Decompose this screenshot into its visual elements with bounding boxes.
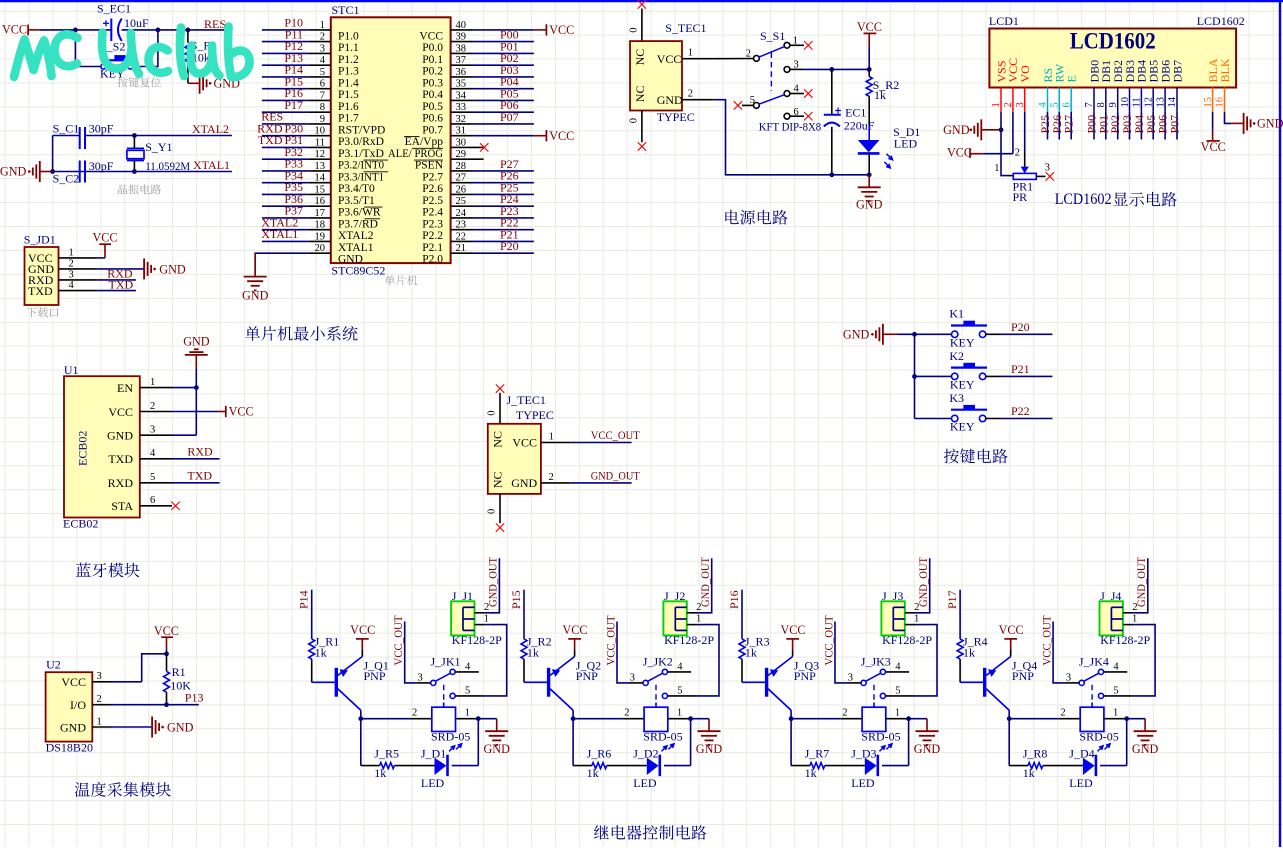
- wire S_EC1 to RES node: [122, 29, 158, 31]
- svg-text:1k: 1k: [1023, 766, 1035, 780]
- no-connect X on S_S1 pin6: [790, 112, 813, 120]
- svg-text:NC: NC: [491, 471, 505, 488]
- wire from pin 25 of STC1: [473, 205, 534, 207]
- svg-text:KF128-2P: KF128-2P: [1100, 633, 1150, 647]
- wire U2 VCC leg: [111, 681, 142, 683]
- resistor R1 10K: [164, 654, 192, 705]
- svg-text:P2.1: P2.1: [422, 242, 443, 254]
- pin 11 DB4 of LCD1: [1132, 60, 1149, 112]
- svg-text:12: 12: [315, 149, 326, 160]
- wire from pin 26 of STC1: [473, 193, 534, 195]
- pin 32 P0.7 of STC1: [422, 114, 472, 136]
- svg-text:VCC_OUT: VCC_OUT: [591, 428, 641, 442]
- connector S_JD1: [24, 233, 59, 305]
- resistor J_R1 1k: [309, 634, 340, 682]
- svg-text:4: 4: [1113, 662, 1119, 673]
- wire U2 I/O to P13: [111, 704, 199, 706]
- transistor J_Q2 PNP: [524, 657, 601, 711]
- wire collector to bus: [1008, 710, 1010, 718]
- svg-text:P3.6/WR: P3.6/WR: [338, 207, 381, 219]
- node junction collector 4: [1007, 716, 1012, 721]
- svg-text:P1.1: P1.1: [338, 42, 359, 54]
- svg-text:KEY: KEY: [950, 377, 975, 391]
- svg-text:GND: GND: [914, 742, 941, 756]
- connector S_TEC1 TYPEC: [630, 21, 707, 110]
- svg-text:3: 3: [69, 269, 74, 280]
- wire from pin 34 of STC1: [473, 99, 534, 101]
- svg-text:11: 11: [315, 137, 325, 148]
- node junction key1: [912, 332, 917, 337]
- svg-text:P3.2/INT0: P3.2/INT0: [338, 160, 384, 172]
- svg-text:VCC: VCC: [61, 675, 86, 689]
- svg-text:PR: PR: [1013, 190, 1028, 204]
- wire switch pin5 to KF pin1: [455, 695, 484, 697]
- wire RXD: [97, 279, 136, 281]
- svg-text:XTAL1: XTAL1: [193, 158, 230, 172]
- power flag VCC (pin40): [545, 24, 547, 35]
- svg-text:J_JK2: J_JK2: [643, 655, 673, 669]
- wire to pin 1 of STC1: [262, 29, 309, 31]
- wire to pin 4 of STC1: [262, 64, 309, 66]
- no-connect X on S_S1 pin1: [790, 41, 813, 49]
- pin name NC GND of S_TEC1: [633, 86, 683, 107]
- wire VCC_OUT riser 2: [629, 682, 643, 684]
- svg-text:TYPEC: TYPEC: [516, 408, 554, 422]
- wire LCD pin 13: [1164, 112, 1166, 140]
- node junction VSS: [999, 127, 1004, 132]
- svg-text:XTAL1: XTAL1: [261, 227, 298, 241]
- wire K2 to P21: [985, 375, 1001, 377]
- resistor S_R2 1k: [866, 69, 899, 125]
- pin 23 P2.2 of STC1: [422, 220, 472, 242]
- wire KF pin2 to GND_OUT riser 3: [905, 612, 915, 614]
- wire to pin 7 of STC1: [262, 99, 309, 101]
- pin 4 RS of LCD1: [1038, 68, 1055, 112]
- pin 21 P2.0 of STC1: [422, 243, 472, 265]
- terminal J_J2 KF128-2P: [663, 589, 714, 647]
- led J_D2 LED: [607, 747, 660, 791]
- wire LCD pin 12: [1152, 112, 1154, 140]
- svg-text:2: 2: [624, 708, 629, 719]
- svg-text:12: 12: [1144, 97, 1155, 108]
- svg-text:27: 27: [456, 173, 467, 184]
- pushbutton K2 KEY: [949, 349, 987, 392]
- svg-text:STA: STA: [111, 499, 133, 513]
- pin 17 P3.7/RD of STC1: [309, 208, 378, 230]
- svg-text:3: 3: [97, 671, 102, 682]
- pin 28 P2.7 of STC1: [422, 161, 472, 183]
- svg-text:P13: P13: [185, 690, 204, 704]
- svg-text:P14: P14: [297, 590, 311, 609]
- pin 38 P0.1 of STC1: [422, 43, 472, 65]
- svg-text:P3.1/TxD: P3.1/TxD: [338, 148, 384, 160]
- svg-text:5: 5: [320, 67, 325, 78]
- svg-text:GND_OUT: GND_OUT: [916, 556, 930, 607]
- svg-text:S_S1: S_S1: [760, 29, 785, 43]
- svg-text:PNP: PNP: [794, 669, 816, 683]
- node junction relay pin1 1: [476, 716, 481, 721]
- wire bus to relay pin2: [1009, 718, 1059, 720]
- svg-text:GND: GND: [843, 328, 870, 342]
- svg-text:5: 5: [677, 686, 682, 697]
- pin 2 VCC of U1: [108, 401, 172, 419]
- relay J_K2 SRD-05: [624, 707, 689, 751]
- wire power bottom bus: [713, 100, 869, 175]
- node junction S_R2 top: [867, 67, 872, 72]
- capacitor EC1 220uF: [824, 69, 875, 174]
- ground GND (crystal): [0, 161, 53, 182]
- svg-text:28: 28: [456, 161, 467, 172]
- resistor J_R3 1k: [739, 634, 770, 682]
- wire from pin 37 of STC1: [473, 64, 534, 66]
- svg-text:NC: NC: [491, 431, 505, 448]
- svg-text:1: 1: [1132, 614, 1137, 625]
- pin 2 of J_TEC1: [541, 472, 571, 483]
- pin 7 P1.6 of STC1: [309, 90, 359, 112]
- svg-text:GND: GND: [60, 720, 86, 734]
- wire K1 to P20: [985, 333, 1001, 335]
- relay J_K1 SRD-05: [412, 707, 477, 751]
- svg-text:4: 4: [150, 448, 156, 459]
- svg-text:P20: P20: [1011, 320, 1030, 334]
- node junction relay pin1 3: [906, 716, 911, 721]
- svg-text:23: 23: [456, 220, 467, 231]
- svg-text:LED: LED: [894, 137, 918, 151]
- wire to pin 10 of STC1: [262, 135, 309, 137]
- svg-text:LCD1602: LCD1602: [1197, 14, 1245, 28]
- wire VCC_OUT riser 4: [1065, 682, 1079, 684]
- svg-text:5: 5: [1113, 686, 1118, 697]
- svg-text:K1: K1: [949, 307, 964, 321]
- svg-text:ECB02: ECB02: [63, 516, 98, 530]
- svg-text:2: 2: [1003, 102, 1014, 107]
- svg-text:P1.2: P1.2: [338, 54, 359, 66]
- svg-text:0: 0: [629, 118, 640, 123]
- power flag VCC (reset circuit): [2, 23, 40, 37]
- power flag VCC (relay 3): [780, 623, 805, 656]
- relay J_K3 SRD-05: [842, 707, 907, 751]
- svg-text:5: 5: [895, 686, 900, 697]
- wire KF pin2 to GND_OUT riser 1: [475, 612, 485, 614]
- svg-text:KFT DIP-8X8: KFT DIP-8X8: [759, 120, 822, 134]
- transistor J_Q4 PNP: [960, 657, 1037, 711]
- svg-text:P0.2: P0.2: [422, 66, 443, 78]
- svg-text:VCC: VCC: [947, 146, 972, 160]
- svg-text:19: 19: [315, 231, 326, 242]
- wire to pin 19 of STC1: [262, 240, 309, 242]
- wire KF pin1 lead: [475, 624, 485, 626]
- wire switch pin5 to KF pin1: [886, 695, 915, 697]
- svg-text:16: 16: [1215, 97, 1226, 108]
- node junction R1 top: [164, 651, 169, 656]
- svg-text:3: 3: [848, 672, 853, 683]
- resistor J_R2 1k: [521, 634, 552, 682]
- svg-text:3: 3: [1066, 672, 1071, 683]
- pin 3 GND of U1: [107, 425, 172, 443]
- wire from pin 22 of STC1: [473, 240, 534, 242]
- svg-text:5: 5: [150, 472, 155, 483]
- pin 3 VO of LCD1: [1015, 65, 1032, 112]
- capacitor S_C2 30pF: [53, 159, 125, 185]
- wire LCD pin15 BLA to VCC: [1212, 112, 1214, 130]
- svg-text:U1: U1: [64, 363, 79, 377]
- svg-text:NC: NC: [633, 49, 647, 66]
- svg-text:2: 2: [746, 49, 751, 60]
- svg-text:LCD1: LCD1: [989, 14, 1019, 28]
- no-connect X on U1 STA: [171, 502, 179, 510]
- pin 2 VCC of LCD1: [1003, 58, 1020, 112]
- svg-text:4: 4: [677, 662, 683, 673]
- label 晶振电路: [118, 184, 161, 194]
- pin 6 STA of U1: [111, 495, 172, 513]
- svg-text:KF128-2P: KF128-2P: [882, 633, 932, 647]
- no-connect X on PR1 pin3: [1046, 172, 1054, 180]
- resistor J_R8 1k: [1009, 747, 1047, 780]
- wire to pin 8 of STC1: [262, 111, 309, 113]
- wire to pin 18 of STC1: [262, 229, 309, 231]
- wire relay pin1 to gnd: [689, 718, 709, 720]
- svg-text:S_C2: S_C2: [53, 171, 80, 185]
- pin 2 P1.1 of STC1: [309, 32, 359, 54]
- svg-text:P0.3: P0.3: [422, 77, 443, 89]
- pin 5 RXD of U1: [108, 472, 172, 490]
- pin name NC VCC of S_TEC1: [633, 49, 682, 66]
- wire to pin 6 of STC1: [262, 88, 309, 90]
- connector J_TEC1: [488, 424, 541, 494]
- svg-text:TXD: TXD: [28, 284, 53, 298]
- wire LCD pin16 BLK to GND: [1225, 112, 1232, 124]
- ground GND (lcd left): [943, 119, 1001, 140]
- pin 1 GND of U2: [60, 716, 111, 734]
- svg-text:J_D2: J_D2: [633, 747, 658, 761]
- svg-text:1: 1: [150, 377, 155, 388]
- svg-text:30pF: 30pF: [89, 159, 114, 173]
- svg-text:P21: P21: [1011, 362, 1030, 376]
- wire VSS to potentiometer pin1: [1001, 130, 1007, 176]
- svg-text:32: 32: [456, 114, 467, 125]
- svg-text:1k: 1k: [745, 645, 757, 659]
- svg-text:ALE/ PROG: ALE/ PROG: [388, 148, 443, 160]
- node junction EC1 bottom: [829, 172, 834, 177]
- svg-text:KEY: KEY: [950, 335, 975, 349]
- svg-text:11: 11: [1132, 97, 1143, 107]
- svg-text:TYPEC: TYPEC: [657, 110, 695, 124]
- pin 4 TXD of U1: [108, 448, 172, 466]
- capacitor S_C1 30pF: [53, 121, 114, 149]
- wire pin1 to VCC: [97, 257, 105, 259]
- svg-text:VCC: VCC: [549, 129, 574, 143]
- node junction EC1 top: [829, 67, 834, 72]
- svg-text:GND_OUT: GND_OUT: [591, 469, 641, 483]
- pin 9 RST/VPD of STC1: [309, 114, 385, 136]
- svg-text:VCC: VCC: [999, 623, 1024, 637]
- svg-text:2: 2: [320, 32, 325, 43]
- title 继电器控制电路: [594, 825, 706, 840]
- resistor J_R7 1k: [791, 747, 829, 780]
- svg-text:13: 13: [1155, 97, 1166, 108]
- wire KF pin1 lead: [1123, 624, 1133, 626]
- node junction crystal top: [132, 133, 137, 138]
- sheet border top: [0, 0, 1283, 2]
- pushbutton K1 KEY: [949, 307, 987, 350]
- svg-text:J_R7: J_R7: [805, 747, 830, 761]
- svg-text:33: 33: [456, 102, 467, 113]
- pushbutton S_S2 KEY: [100, 39, 133, 80]
- label 按键复位: [117, 77, 161, 87]
- svg-text:KF128-2P: KF128-2P: [452, 633, 502, 647]
- svg-text:P1.5: P1.5: [338, 89, 359, 101]
- no-connect X bottom of J_TEC1: [496, 523, 504, 531]
- svg-text:2: 2: [688, 89, 693, 100]
- svg-text:PNP: PNP: [1012, 669, 1034, 683]
- svg-text:18: 18: [315, 220, 326, 231]
- wire from pin 23 of STC1: [473, 229, 534, 231]
- pin 0 top of S_TEC1: [629, 9, 642, 42]
- wire VCC_OUT riser 1: [417, 682, 431, 684]
- svg-text:TXD: TXD: [187, 468, 212, 482]
- node junction relay pin1 4: [1124, 716, 1129, 721]
- svg-text:J_R6: J_R6: [587, 747, 612, 761]
- terminal J_J4 KF128-2P: [1100, 589, 1151, 647]
- wire P15 riser: [523, 590, 525, 639]
- node junction crystal bottom: [132, 169, 137, 174]
- svg-text:VCC: VCC: [780, 623, 805, 637]
- transistor J_Q1 PNP: [312, 657, 389, 711]
- svg-text:P3.4/T0: P3.4/T0: [338, 183, 375, 195]
- svg-text:1: 1: [1113, 708, 1118, 719]
- svg-text:P3.5/T1: P3.5/T1: [338, 195, 375, 207]
- ground GND (mcu): [242, 253, 269, 302]
- title LCD1602显示电路: [1055, 191, 1177, 208]
- pin 27 P2.6 of STC1: [422, 173, 472, 195]
- pin 19 XTAL1 of STC1: [309, 231, 374, 253]
- pin 31 EA/Vpp of STC1: [405, 126, 473, 148]
- svg-text:SRD-05: SRD-05: [643, 730, 682, 744]
- resistor J_R4 1k: [957, 634, 988, 682]
- svg-text:P3.0/RxD: P3.0/RxD: [338, 136, 384, 148]
- svg-text:SRD-05: SRD-05: [861, 730, 900, 744]
- sheet border right: [1279, 0, 1281, 847]
- wire from pin 28 of STC1: [473, 170, 534, 172]
- pin 30 ALE/ PROG of STC1: [388, 137, 484, 159]
- wire VCC to R1: [166, 650, 168, 654]
- svg-text:STC1: STC1: [332, 3, 360, 17]
- svg-text:VCC: VCC: [2, 23, 27, 37]
- wire switch loop left: [75, 30, 101, 67]
- pin 1 P1.0 of STC1: [309, 20, 359, 42]
- wire P17 riser: [959, 590, 961, 639]
- svg-text:STC89C52: STC89C52: [331, 263, 385, 277]
- pin 34 P0.5 of STC1: [422, 90, 472, 112]
- svg-text:21: 21: [456, 243, 467, 254]
- wire pin31 to VCC: [473, 135, 534, 137]
- svg-text:0: 0: [487, 411, 498, 416]
- overline marks on INT0 INT1 WR RD EA PROG PSEN: [364, 137, 444, 219]
- pin 3 RXD of S_JD1: [28, 269, 97, 287]
- svg-text:220uF: 220uF: [844, 119, 875, 133]
- wire U1 VCC: [172, 411, 218, 413]
- svg-text:XTAL2: XTAL2: [192, 122, 229, 136]
- wire U2 GND: [111, 726, 153, 728]
- svg-text:VCC: VCC: [657, 52, 682, 66]
- no-connect X on S_S1 pin4: [790, 89, 813, 97]
- svg-text:GND: GND: [107, 429, 133, 443]
- svg-text:2: 2: [1060, 708, 1065, 719]
- pin 29 PSEN of STC1: [415, 149, 484, 171]
- resistor S_R1 10k: [185, 30, 217, 83]
- wire S_S1 pin3 to VCC node: [790, 68, 803, 70]
- wire collector to bus: [572, 710, 574, 718]
- pin 6 E of LCD1: [1061, 75, 1078, 112]
- power flag VCC (pin31): [545, 130, 547, 141]
- svg-text:1: 1: [688, 48, 693, 59]
- node junction key2: [912, 374, 917, 379]
- wire to pin 13 of STC1: [262, 170, 309, 172]
- led J_D3 LED: [825, 747, 878, 791]
- svg-text:P2.0: P2.0: [422, 254, 443, 266]
- power flag VCC (relay 4): [999, 623, 1024, 656]
- title 蓝牙模块: [76, 563, 140, 578]
- pin 8 DB1 of LCD1: [1096, 60, 1113, 112]
- svg-text:13: 13: [315, 161, 326, 172]
- power flag VCC (relay 1): [350, 623, 375, 656]
- no-connect X bottom of S_TEC1: [638, 142, 646, 150]
- svg-text:S_Y1: S_Y1: [145, 140, 172, 154]
- wire from pin 27 of STC1: [473, 182, 534, 184]
- svg-text:30pF: 30pF: [89, 121, 114, 135]
- pin 4 P1.3 of STC1: [309, 55, 359, 77]
- switch J_JK1: [417, 655, 471, 708]
- svg-text:1: 1: [895, 708, 900, 719]
- svg-text:NC: NC: [633, 86, 647, 103]
- svg-text:GND: GND: [943, 123, 970, 137]
- wire switch loop right: [133, 30, 158, 67]
- svg-text:J_D1: J_D1: [421, 747, 446, 761]
- wire to pin 16 of STC1: [262, 205, 309, 207]
- svg-text:9: 9: [320, 114, 325, 125]
- svg-text:VCC: VCC: [92, 230, 117, 244]
- svg-text:BLK: BLK: [1218, 58, 1232, 82]
- terminal J_J1 KF128-2P: [451, 589, 502, 647]
- svg-text:P0.1: P0.1: [422, 54, 443, 66]
- wire LCD pin 11: [1140, 112, 1142, 140]
- svg-text:LED: LED: [1069, 776, 1093, 790]
- wire LCD pin 9: [1117, 112, 1119, 140]
- ground GND (relay 4): [1132, 719, 1159, 756]
- svg-text:GND: GND: [1132, 742, 1159, 756]
- svg-text:1k: 1k: [874, 88, 886, 102]
- svg-text:RES: RES: [204, 17, 226, 31]
- wire LCD pin 5: [1058, 112, 1060, 140]
- wire caps left leg: [53, 135, 80, 137]
- power flag VCC (lcd left): [947, 146, 984, 160]
- svg-text:P2.6: P2.6: [422, 183, 443, 195]
- svg-text:24: 24: [456, 208, 467, 219]
- svg-text:LED: LED: [633, 776, 657, 790]
- svg-text:2: 2: [412, 708, 417, 719]
- svg-text:S_EC1: S_EC1: [97, 2, 131, 16]
- switch J_JK4: [1066, 655, 1120, 708]
- svg-text:GND_OUT: GND_OUT: [1134, 556, 1148, 607]
- svg-text:8: 8: [320, 102, 325, 113]
- svg-text:38: 38: [456, 43, 467, 54]
- svg-text:RXD: RXD: [187, 444, 213, 458]
- svg-text:7: 7: [1084, 102, 1095, 107]
- ground GND (lcd right): [1244, 113, 1283, 134]
- wire switch pin4 stub: [1104, 671, 1128, 673]
- svg-text:J_R5: J_R5: [374, 747, 399, 761]
- svg-text:VCC: VCC: [1201, 140, 1226, 154]
